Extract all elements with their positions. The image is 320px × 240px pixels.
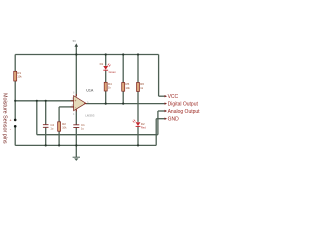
wire R2 branch	[58, 107, 60, 145]
wire D1 R4 branch	[105, 55, 107, 104]
node R5 output junction	[122, 103, 124, 105]
resistor R5	[122, 83, 125, 92]
node R4 output junction	[105, 103, 107, 105]
wire analog output vertical	[157, 111, 159, 135]
svg-text:Moisture Sensor pins: Moisture Sensor pins	[1, 93, 7, 144]
node probe junction	[36, 100, 38, 102]
svg-text:+: +	[75, 99, 77, 103]
wire analog rail M	[37, 134, 158, 136]
wire op-amp V- down through C1 to ground	[75, 110, 77, 157]
connector pin -	[14, 125, 17, 128]
resistor R6	[137, 83, 140, 92]
svg-text:R5: R5	[126, 82, 130, 86]
svg-text:R4: R4	[108, 82, 112, 86]
svg-text:VCC: VCC	[168, 94, 179, 100]
node top rail / 5V stem junction	[75, 53, 77, 55]
wire output / digital output rail	[86, 103, 166, 105]
wire GND label stub	[156, 118, 165, 120]
wire VCC symbol stem down to op-amp V+	[75, 46, 77, 96]
svg-text:C1: C1	[81, 123, 85, 127]
svg-text:-: -	[75, 106, 76, 110]
LED D1	[103, 66, 108, 70]
resistor R2	[58, 122, 61, 131]
node GND pin arrow	[165, 118, 167, 120]
svg-text:D1: D1	[100, 62, 104, 66]
power symbol 5V arrow	[75, 43, 79, 46]
wire GND label vertical	[155, 119, 157, 146]
wire bottom GND rail	[15, 144, 156, 146]
svg-text:C2: C2	[50, 123, 54, 127]
svg-text:U1A: U1A	[86, 89, 94, 93]
node +IN rail left junction	[14, 100, 16, 102]
wire R6 D2 branch	[137, 55, 139, 146]
wire R5 branch	[122, 55, 124, 104]
capacitor C2	[43, 125, 49, 128]
wire analog output stub	[158, 110, 165, 112]
svg-text:Analog Output: Analog Output	[168, 109, 201, 115]
node C2 top junction	[45, 100, 47, 102]
LED D2	[136, 122, 141, 126]
svg-text:10k: 10k	[62, 125, 67, 129]
node C1 gnd junction	[75, 144, 77, 146]
node D2 gnd junction	[137, 144, 139, 146]
resistor R4	[104, 82, 107, 91]
node VCC pin arrow	[165, 95, 167, 97]
svg-text:R1: R1	[17, 71, 21, 75]
wire -IN horizontal	[59, 106, 74, 108]
wire sensor - pin down to GND rail	[14, 126, 16, 145]
op-amp U1	[74, 96, 86, 111]
node Digital Output pin arrow	[165, 102, 167, 104]
svg-text:5V: 5V	[73, 39, 77, 43]
connector pin +	[14, 119, 17, 122]
wire VCC label vertical	[158, 55, 160, 97]
node R2 gnd junction	[58, 144, 60, 146]
svg-text:R6: R6	[140, 82, 144, 86]
svg-text:Red: Red	[141, 126, 146, 130]
node C2 gnd junction	[45, 144, 47, 146]
svg-text:LM393: LM393	[85, 114, 95, 118]
capacitor C1	[73, 125, 79, 128]
svg-text:D2: D2	[141, 122, 145, 126]
wire top rail VCC	[15, 54, 158, 56]
node top rail / R6 junction	[137, 53, 139, 55]
wire probe node down	[36, 101, 38, 135]
svg-text:Green: Green	[109, 70, 117, 74]
svg-text:10k: 10k	[126, 86, 131, 90]
resistor R1	[14, 71, 17, 81]
svg-text:Digital Output: Digital Output	[168, 101, 199, 107]
svg-text:10k: 10k	[17, 75, 22, 79]
ground	[73, 156, 80, 158]
wire VCC label stub	[159, 95, 165, 97]
wire C2 branch	[45, 101, 47, 146]
node top rail / D1 junction	[105, 53, 107, 55]
svg-text:GND: GND	[168, 117, 180, 123]
wire +IN rail	[15, 100, 73, 102]
svg-text:R2: R2	[62, 122, 66, 126]
node Analog Output pin arrow	[165, 110, 167, 112]
wire left vertical (VCC to sensor + pin)	[14, 55, 16, 120]
node top rail / R5 junction	[122, 53, 124, 55]
